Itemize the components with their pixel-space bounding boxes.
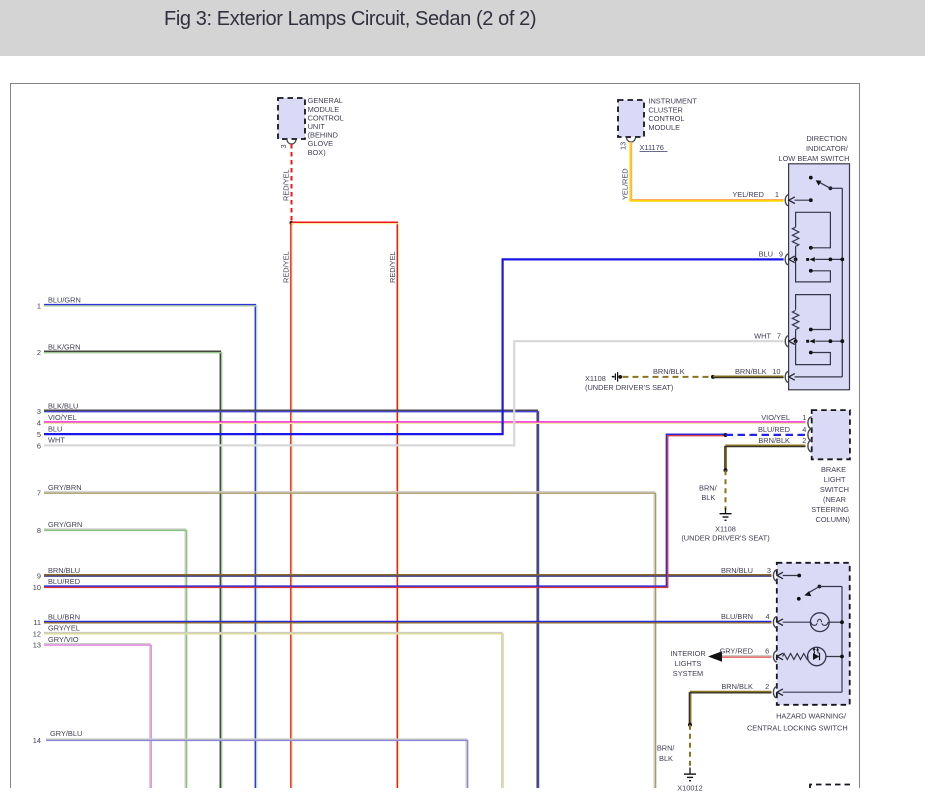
connector X1108 inline symbol bbox=[585, 372, 673, 392]
svg-text:7: 7 bbox=[37, 489, 41, 498]
svg-text:7: 7 bbox=[777, 332, 781, 341]
svg-text:10: 10 bbox=[772, 367, 780, 376]
wire 14 GRY/BLU bbox=[33, 729, 468, 788]
svg-text:WHT: WHT bbox=[48, 436, 65, 445]
hazard pin 6 resistor and LED bbox=[777, 653, 808, 660]
svg-text:LOW BEAM SWITCH: LOW BEAM SWITCH bbox=[778, 154, 849, 163]
wire RED/YEL solid left branch bbox=[282, 223, 293, 788]
svg-text:BRN/BLU: BRN/BLU bbox=[48, 566, 80, 575]
wire 1 BLU/GRN bbox=[37, 296, 257, 788]
LED symbol bbox=[808, 647, 844, 666]
svg-text:YEL/RED: YEL/RED bbox=[620, 168, 629, 200]
svg-text:BLU/GRN: BLU/GRN bbox=[48, 296, 81, 305]
ground X1108 bbox=[681, 508, 769, 543]
wire GRY/RED to hazard pin 6 bbox=[719, 646, 771, 657]
brake pin arc 4 bbox=[808, 429, 812, 441]
svg-text:BRN/: BRN/ bbox=[657, 743, 676, 752]
svg-text:GRY/YEL: GRY/YEL bbox=[48, 624, 80, 633]
svg-text:3: 3 bbox=[279, 144, 288, 148]
lower gang loop top bbox=[796, 295, 831, 332]
wire RED/YEL right branch bbox=[292, 222, 399, 788]
hazard pin arc 2 bbox=[773, 687, 776, 698]
svg-text:WHT: WHT bbox=[754, 332, 771, 341]
svg-text:BRN/BLK: BRN/BLK bbox=[721, 682, 753, 691]
svg-text:LIGHT: LIGHT bbox=[824, 475, 846, 484]
pin arc 10 bbox=[785, 371, 788, 382]
hazard pin arc 6 bbox=[773, 651, 776, 662]
hazard pin 2 internal lead bbox=[777, 689, 842, 696]
svg-text:BLU: BLU bbox=[759, 250, 773, 259]
svg-text:1: 1 bbox=[775, 190, 779, 199]
connector label X11176 bbox=[640, 143, 668, 152]
svg-text:BLK/GRN: BLK/GRN bbox=[48, 342, 80, 351]
junction dot BRN/BLK bbox=[724, 468, 728, 472]
pin 9 internal contact row bbox=[789, 256, 844, 263]
wire BRN/BLK dashed drop bbox=[699, 470, 725, 509]
wire YEL/RED from cluster pin 13 to switch pin 1 bbox=[620, 142, 783, 201]
svg-text:9: 9 bbox=[779, 250, 783, 259]
lamp symbol bbox=[810, 613, 844, 632]
hazard pin 4 lead and lamp bbox=[777, 619, 810, 626]
wire 3 BLK/BLU bbox=[37, 401, 539, 788]
wire 13 GRY/VIO bbox=[33, 635, 151, 788]
svg-text:DIRECTION: DIRECTION bbox=[806, 134, 847, 143]
module box Instrument Cluster bbox=[618, 96, 697, 150]
svg-text:RED/YEL: RED/YEL bbox=[282, 251, 291, 283]
wire 2 BLK/GRN bbox=[37, 342, 222, 788]
junction dot RED/YEL bbox=[290, 221, 294, 225]
svg-text:COLUMN): COLUMN) bbox=[816, 515, 851, 524]
svg-text:14: 14 bbox=[33, 736, 41, 745]
pin arc 1 bbox=[785, 195, 788, 206]
hazard switch lever bbox=[797, 585, 842, 601]
svg-text:4: 4 bbox=[765, 612, 769, 621]
svg-text:(UNDER DRIVER'S SEAT): (UNDER DRIVER'S SEAT) bbox=[681, 534, 769, 543]
svg-text:4: 4 bbox=[37, 419, 41, 428]
wire 6 WHT to direction switch pin 7 bbox=[37, 332, 784, 451]
wire 8 GRY/GRN bbox=[37, 520, 187, 788]
svg-text:1: 1 bbox=[37, 301, 41, 310]
svg-text:GRY/BRN: GRY/BRN bbox=[48, 483, 82, 492]
svg-text:(NEAR: (NEAR bbox=[823, 495, 846, 504]
svg-text:BLK/BLU: BLK/BLU bbox=[48, 401, 78, 410]
svg-text:RED/YEL: RED/YEL bbox=[388, 251, 397, 283]
pin 10 internal lead bbox=[789, 374, 843, 381]
svg-text:X10012: X10012 bbox=[677, 784, 702, 793]
lower gang loop bottom bbox=[796, 341, 831, 364]
switch box HAZARD WARNING / CENTRAL LOCKING SWITCH bbox=[747, 563, 850, 733]
svg-text:YEL/RED: YEL/RED bbox=[732, 190, 764, 199]
wire 12 GRY/YEL bbox=[33, 624, 503, 788]
svg-text:2: 2 bbox=[765, 682, 769, 691]
switch box BRAKE LIGHT SWITCH bbox=[811, 410, 850, 524]
svg-text:13: 13 bbox=[33, 641, 41, 650]
wire BRN/BLK from hazard pin 2 bbox=[689, 682, 771, 725]
svg-text:BLK: BLK bbox=[701, 493, 715, 502]
svg-text:5: 5 bbox=[37, 430, 41, 439]
svg-text:3: 3 bbox=[37, 407, 41, 416]
svg-text:STEERING: STEERING bbox=[811, 505, 849, 514]
hazard pin arc 3 bbox=[773, 570, 776, 581]
wire BRN/BLK solid to direction switch pin 10 bbox=[713, 367, 784, 377]
junction dot BLU/RED bbox=[724, 433, 728, 437]
svg-text:SYSTEM: SYSTEM bbox=[673, 669, 703, 678]
svg-text:BLU/BRN: BLU/BRN bbox=[721, 612, 753, 621]
brake pin arc 1 bbox=[808, 417, 812, 429]
resistor (upper gang) bbox=[792, 227, 798, 259]
upper gang loop bottom bbox=[796, 259, 831, 282]
svg-text:11: 11 bbox=[33, 618, 41, 627]
resistor (lower gang) bbox=[792, 310, 798, 341]
wire BRN/BLK from brake pin 2 to ground bbox=[725, 436, 807, 470]
svg-text:BLU/RED: BLU/RED bbox=[758, 425, 790, 434]
svg-text:BLK: BLK bbox=[659, 754, 673, 763]
svg-text:X11176: X11176 bbox=[640, 143, 664, 152]
brake pin arc 2 bbox=[808, 440, 812, 452]
svg-text:GRY/RED: GRY/RED bbox=[719, 646, 753, 655]
svg-text:BRN/BLK: BRN/BLK bbox=[735, 367, 767, 376]
svg-text:4: 4 bbox=[802, 425, 806, 434]
svg-text:CLUSTER: CLUSTER bbox=[648, 105, 683, 114]
svg-text:BRN/: BRN/ bbox=[699, 484, 718, 493]
pin arc 7 bbox=[785, 336, 788, 347]
svg-text:VIO/YEL: VIO/YEL bbox=[48, 413, 77, 422]
wire BLU/RED dashed to brake light switch pin 4 bbox=[726, 425, 807, 435]
svg-text:10: 10 bbox=[33, 583, 41, 592]
pin 7 internal contact row bbox=[789, 338, 844, 345]
svg-text:X1108: X1108 bbox=[715, 525, 736, 534]
wire RED/YEL dashed from GMCU pin 3 bbox=[282, 144, 292, 223]
svg-text:BRN/BLK: BRN/BLK bbox=[653, 367, 685, 376]
svg-text:BLU/BRN: BLU/BRN bbox=[48, 613, 80, 622]
switch lever (turn signal) bbox=[809, 176, 842, 191]
svg-text:6: 6 bbox=[765, 646, 769, 655]
svg-text:SWITCH: SWITCH bbox=[820, 485, 849, 494]
svg-text:BRN/BLU: BRN/BLU bbox=[721, 566, 753, 575]
svg-text:INTERIOR: INTERIOR bbox=[670, 649, 705, 658]
wire BRN/BLK dashed drop to X10012 bbox=[657, 725, 690, 769]
hazard internal bus bbox=[841, 587, 843, 693]
svg-text:INDICATOR/: INDICATOR/ bbox=[806, 144, 849, 153]
svg-text:BRAKE: BRAKE bbox=[821, 465, 846, 474]
pin 1 internal lead bbox=[789, 197, 813, 204]
wire BRN/BLK dashed from X1108 bbox=[623, 367, 714, 377]
svg-text:(UNDER DRIVER'S SEAT): (UNDER DRIVER'S SEAT) bbox=[585, 383, 673, 392]
svg-text:HAZARD WARNING/: HAZARD WARNING/ bbox=[776, 712, 847, 721]
svg-text:LIGHTS: LIGHTS bbox=[675, 659, 702, 668]
svg-text:MODULE: MODULE bbox=[648, 123, 680, 132]
wire 10 BLU/RED solid run bbox=[33, 434, 726, 591]
svg-text:GRY/VIO: GRY/VIO bbox=[48, 635, 79, 644]
pin arc 9 bbox=[785, 254, 788, 265]
svg-text:6: 6 bbox=[37, 441, 41, 450]
wire 9 BRN/BLU to hazard switch pin 3 bbox=[37, 566, 772, 581]
svg-text:X1108: X1108 bbox=[585, 374, 606, 383]
hazard pin 3 internal lead bbox=[777, 572, 801, 579]
svg-text:CONTROL: CONTROL bbox=[648, 114, 684, 123]
svg-text:9: 9 bbox=[37, 572, 41, 581]
switch box DIRECTION INDICATOR / LOW BEAM SWITCH bbox=[778, 134, 849, 390]
svg-text:12: 12 bbox=[33, 629, 41, 638]
svg-text:2: 2 bbox=[802, 436, 806, 445]
svg-text:BLU: BLU bbox=[48, 424, 62, 433]
svg-text:VIO/YEL: VIO/YEL bbox=[761, 413, 790, 422]
svg-text:13: 13 bbox=[619, 142, 628, 150]
svg-text:3: 3 bbox=[767, 566, 771, 575]
svg-text:2: 2 bbox=[37, 348, 41, 357]
svg-text:RED/YEL: RED/YEL bbox=[282, 169, 291, 201]
wire 7 GRY/BRN bbox=[37, 483, 656, 788]
ground X10012 bbox=[677, 768, 702, 793]
partial module box at bottom right bbox=[810, 785, 850, 789]
svg-text:GRY/BLU: GRY/BLU bbox=[50, 729, 82, 738]
upper gang loop top bbox=[796, 212, 831, 249]
junction dot BRN/BLK bbox=[711, 375, 715, 379]
svg-text:8: 8 bbox=[37, 526, 41, 535]
svg-text:BLU/RED: BLU/RED bbox=[48, 577, 80, 586]
interior lights arrow bbox=[670, 649, 722, 678]
svg-text:INSTRUMENT: INSTRUMENT bbox=[648, 96, 697, 105]
svg-text:GRY/GRN: GRY/GRN bbox=[48, 520, 82, 529]
svg-text:BRN/BLK: BRN/BLK bbox=[758, 436, 790, 445]
wire 5 BLU to direction switch pin 9 bbox=[37, 250, 784, 439]
internal bus wire bbox=[841, 188, 843, 377]
svg-text:CENTRAL LOCKING SWITCH: CENTRAL LOCKING SWITCH bbox=[747, 724, 848, 733]
svg-text:1: 1 bbox=[802, 413, 806, 422]
wire 4 VIO/YEL to brake light switch pin 1 bbox=[37, 413, 807, 428]
module box GMCU bbox=[278, 96, 344, 157]
hazard pin arc 4 bbox=[773, 617, 776, 628]
svg-text:BOX): BOX) bbox=[308, 148, 326, 157]
wire 11 BLU/BRN to hazard switch pin 4 bbox=[33, 612, 771, 627]
junction dot BRN/BLK bbox=[688, 723, 692, 727]
